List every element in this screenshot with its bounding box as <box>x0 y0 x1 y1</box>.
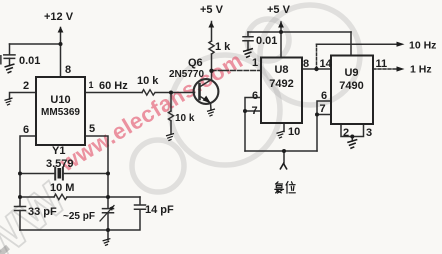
svg-text:6: 6 <box>321 90 327 102</box>
svg-text:10 k: 10 k <box>175 113 195 124</box>
svg-text:1 k: 1 k <box>215 41 231 53</box>
svg-text:1: 1 <box>89 80 94 90</box>
svg-text:8: 8 <box>65 64 71 76</box>
svg-text:0.01: 0.01 <box>256 35 277 47</box>
svg-text:2: 2 <box>343 127 349 139</box>
svg-text:8: 8 <box>303 58 309 70</box>
svg-text:3: 3 <box>366 127 372 139</box>
svg-text:7: 7 <box>252 105 258 117</box>
svg-text:10 Hz: 10 Hz <box>409 40 436 52</box>
svg-text:Y1: Y1 <box>52 145 65 157</box>
svg-text:10 k: 10 k <box>137 75 159 87</box>
svg-text:Q6: Q6 <box>188 57 203 69</box>
svg-text:33 pF: 33 pF <box>28 206 57 218</box>
svg-text:14: 14 <box>320 58 333 70</box>
svg-text:11: 11 <box>376 58 388 70</box>
svg-text:1: 1 <box>252 57 258 69</box>
svg-text:3.579: 3.579 <box>46 158 74 170</box>
svg-text:+5 V: +5 V <box>267 4 291 16</box>
svg-text:7490: 7490 <box>339 80 363 92</box>
svg-text:U10: U10 <box>50 94 70 106</box>
svg-text:14 pF: 14 pF <box>145 204 174 216</box>
svg-text:6: 6 <box>252 90 258 102</box>
svg-text:0.01: 0.01 <box>19 55 40 67</box>
svg-text:6: 6 <box>23 124 29 136</box>
svg-text:60 Hz: 60 Hz <box>99 80 128 92</box>
svg-text:MM5369: MM5369 <box>41 107 80 118</box>
svg-text:1 Hz: 1 Hz <box>410 64 432 76</box>
svg-text:~25 pF: ~25 pF <box>63 211 95 222</box>
svg-text:2N5770: 2N5770 <box>169 69 204 80</box>
svg-text:+5 V: +5 V <box>200 4 224 16</box>
svg-text:U8: U8 <box>274 64 288 76</box>
svg-text:10: 10 <box>288 126 300 138</box>
svg-text:7: 7 <box>320 103 326 115</box>
svg-text:+12 V: +12 V <box>44 11 74 23</box>
svg-text:U9: U9 <box>344 67 358 79</box>
svg-text:10 M: 10 M <box>50 182 74 194</box>
svg-text:2: 2 <box>23 80 29 92</box>
svg-text:5: 5 <box>89 123 95 135</box>
svg-text:7492: 7492 <box>269 78 293 90</box>
